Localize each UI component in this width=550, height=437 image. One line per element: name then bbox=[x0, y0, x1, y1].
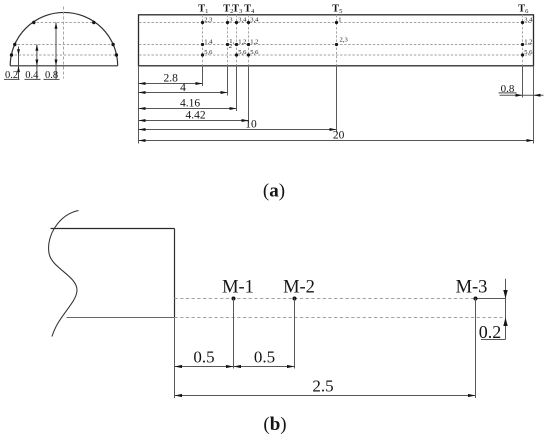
dimension 0.5 bbox=[175, 347, 234, 368]
thermocouple T2 column bbox=[223, 4, 234, 96]
point M-1 bbox=[222, 278, 254, 369]
svg-text:(a): (a) bbox=[263, 181, 285, 202]
dimension 0.2 vertical bbox=[479, 279, 508, 343]
svg-text:5,6: 5,6 bbox=[524, 49, 533, 56]
block top edge bbox=[51, 228, 175, 230]
bar level line 0.4 bbox=[139, 44, 533, 46]
dome base line bbox=[10, 65, 118, 67]
svg-text:2.8: 2.8 bbox=[164, 73, 179, 85]
dome level line 0.2 bbox=[11, 54, 118, 56]
svg-text:4: 4 bbox=[180, 82, 186, 94]
svg-text:0.5: 0.5 bbox=[193, 347, 214, 366]
dome cross-section arc bbox=[10, 12, 118, 65]
weld line lower dashed bbox=[175, 317, 506, 319]
svg-text:10: 10 bbox=[245, 119, 257, 131]
dimension 0.2 arrow bbox=[18, 47, 20, 80]
dimension 2.5 bbox=[175, 377, 476, 398]
dimension 0.8 arrow bbox=[55, 23, 57, 80]
dimension 20 bbox=[139, 130, 534, 142]
svg-text:4.42: 4.42 bbox=[185, 110, 205, 122]
svg-text:0.5: 0.5 bbox=[254, 347, 275, 366]
thermocouple T4 column bbox=[244, 4, 259, 123]
dome centerline bbox=[63, 7, 65, 79]
thermocouple T6 column bbox=[518, 4, 533, 98]
dimension 0.4 arrow bbox=[36, 45, 38, 80]
svg-text:3,4: 3,4 bbox=[524, 17, 533, 24]
dimension 4.16 bbox=[139, 98, 237, 110]
block bottom edge bbox=[67, 317, 175, 319]
svg-text:5,6: 5,6 bbox=[238, 49, 247, 56]
bar outline bbox=[139, 15, 534, 66]
break curve bbox=[49, 211, 79, 337]
svg-text:2.5: 2.5 bbox=[312, 377, 333, 396]
weld line upper dashed bbox=[175, 298, 477, 300]
svg-text:M-2: M-2 bbox=[283, 278, 315, 298]
svg-text:2: 2 bbox=[229, 43, 232, 50]
dome level line 0.4 bbox=[14, 44, 115, 46]
svg-text:2,3: 2,3 bbox=[340, 37, 349, 44]
dimension 4.42 bbox=[139, 110, 249, 122]
thermocouple T5 column bbox=[332, 4, 348, 133]
right edge extension line bbox=[533, 66, 535, 144]
svg-text:(b): (b) bbox=[263, 414, 286, 435]
point M-2 bbox=[283, 278, 315, 369]
svg-text:1,2: 1,2 bbox=[524, 39, 532, 46]
svg-text:1,4: 1,4 bbox=[204, 39, 213, 46]
dome dots on arc bbox=[10, 21, 118, 57]
svg-text:20: 20 bbox=[333, 130, 345, 142]
svg-text:3,4: 3,4 bbox=[238, 17, 247, 24]
svg-text:1,2: 1,2 bbox=[238, 39, 246, 46]
dimension 4 bbox=[139, 82, 228, 94]
thermocouple T1 column bbox=[198, 4, 213, 86]
svg-text:1,2: 1,2 bbox=[250, 39, 258, 46]
leader M-3 to 0.2 dim bbox=[476, 298, 506, 300]
left extension line bbox=[138, 66, 140, 144]
bar level line 0.2 bbox=[139, 54, 533, 56]
dimension 10 bbox=[139, 119, 337, 131]
dimension 0.5 bbox=[234, 347, 295, 368]
block right edge bbox=[174, 229, 176, 318]
svg-text:2,3: 2,3 bbox=[204, 17, 213, 24]
dimension 0.8 right bbox=[499, 83, 544, 97]
svg-text:4.16: 4.16 bbox=[180, 98, 200, 110]
svg-text:5,6: 5,6 bbox=[204, 49, 213, 56]
svg-text:M-1: M-1 bbox=[222, 278, 254, 298]
thermocouple T3 column bbox=[232, 4, 247, 111]
svg-text:1: 1 bbox=[338, 17, 341, 24]
svg-text:M-3: M-3 bbox=[456, 278, 488, 298]
svg-text:5,6: 5,6 bbox=[250, 49, 259, 56]
dimension 2.8 bbox=[139, 73, 203, 85]
bar level line 0.8 bbox=[139, 22, 533, 24]
svg-text:3,4: 3,4 bbox=[250, 17, 259, 24]
point M-3 bbox=[456, 278, 488, 399]
dome level line 0.8 bbox=[33, 22, 96, 24]
